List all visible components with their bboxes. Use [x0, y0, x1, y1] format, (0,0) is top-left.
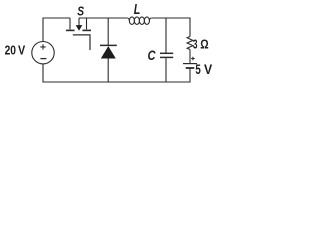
svg-text:20: 20: [5, 43, 16, 58]
svg-text:C: C: [148, 48, 157, 64]
svg-text:V: V: [18, 43, 25, 58]
svg-text:V: V: [204, 62, 212, 77]
svg-text:S: S: [77, 4, 84, 19]
svg-text:L: L: [134, 2, 141, 18]
svg-text:Ω: Ω: [200, 37, 208, 52]
svg-text:5: 5: [195, 62, 201, 77]
svg-text:3: 3: [193, 37, 198, 52]
